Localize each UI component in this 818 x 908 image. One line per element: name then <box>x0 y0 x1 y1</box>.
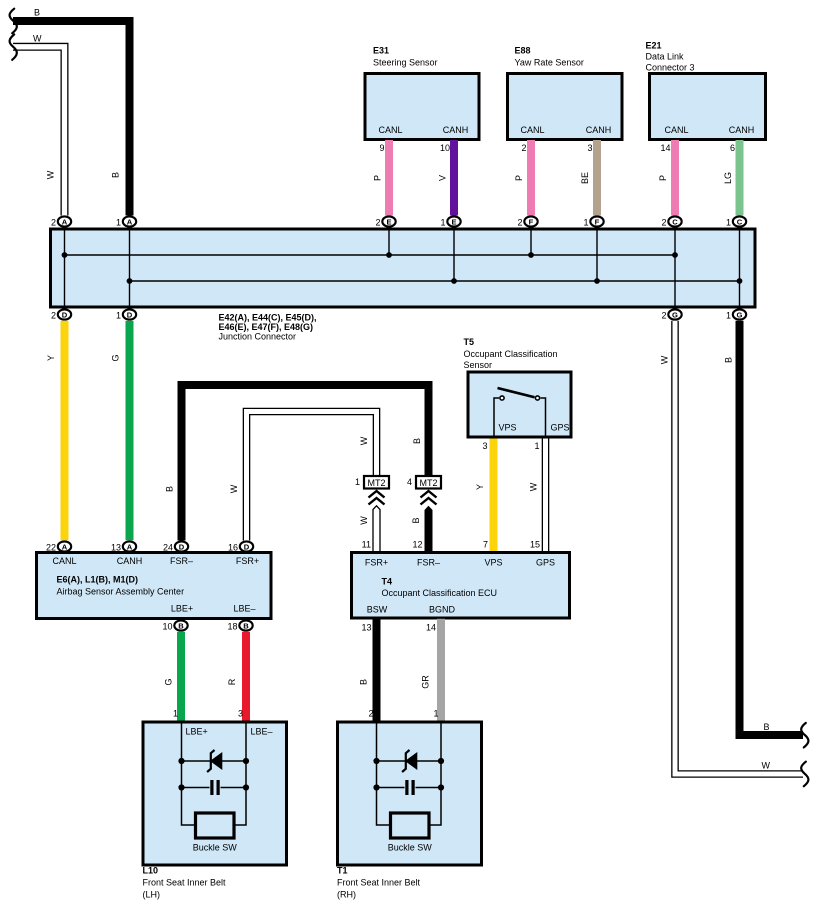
svg-text:LG: LG <box>723 172 733 184</box>
capacitor L10 <box>210 780 219 795</box>
front seat inner belt RH T1 box <box>337 722 482 900</box>
svg-text:Front Seat Inner Belt: Front Seat Inner Belt <box>143 878 227 888</box>
svg-text:1: 1 <box>116 310 121 320</box>
buckle switch T1 <box>388 813 433 853</box>
svg-text:D: D <box>244 542 250 551</box>
svg-text:B: B <box>34 8 40 18</box>
svg-text:FSR+: FSR+ <box>236 556 259 566</box>
svg-text:E: E <box>386 217 391 226</box>
svg-text:(RH): (RH) <box>337 890 356 900</box>
svg-text:W: W <box>46 170 56 179</box>
wire W (T5 GPS pin 1 to T4 pin 15) <box>529 439 546 553</box>
connector 2G <box>661 309 681 320</box>
svg-text:24: 24 <box>163 542 173 552</box>
svg-text:Steering Sensor: Steering Sensor <box>373 58 438 68</box>
svg-text:E6(A), L1(B), M1(D): E6(A), L1(B), M1(D) <box>57 575 139 585</box>
svg-text:D: D <box>127 310 133 319</box>
wire R (airbag LBE- to L10 pin 3) <box>227 632 250 723</box>
svg-text:CANL: CANL <box>378 125 402 135</box>
svg-text:A: A <box>62 217 68 226</box>
svg-text:(LH): (LH) <box>143 890 161 900</box>
wire GR (T4 BGND pin 14 to T1 pin 1) <box>421 619 446 723</box>
svg-text:10: 10 <box>162 621 172 631</box>
svg-text:1: 1 <box>726 310 731 320</box>
wire P (E31 CANL pin 9) <box>373 140 394 216</box>
wire V (E31 CANH pin 10) <box>438 140 459 216</box>
svg-text:B: B <box>724 357 734 363</box>
wire left vertical <box>182 723 196 825</box>
connector 2F <box>517 216 537 227</box>
svg-text:FSR+: FSR+ <box>365 558 388 568</box>
svg-text:P: P <box>658 175 668 181</box>
L10 internal circuit <box>182 723 247 825</box>
svg-text:4: 4 <box>407 477 412 487</box>
connector 2D <box>51 309 71 320</box>
svg-text:Y: Y <box>475 484 485 490</box>
svg-text:2: 2 <box>368 709 373 719</box>
svg-text:E46(E), E47(F), E48(G): E46(E), E47(F), E48(G) <box>219 322 314 332</box>
svg-text:CANH: CANH <box>117 556 143 566</box>
svg-text:16: 16 <box>228 542 238 552</box>
svg-text:1: 1 <box>433 709 438 719</box>
connector 1A <box>116 216 136 227</box>
svg-text:7: 7 <box>483 540 488 550</box>
wire diode row <box>182 760 247 762</box>
wire left vertical <box>377 723 391 825</box>
svg-text:GPS: GPS <box>550 423 569 433</box>
svg-text:1: 1 <box>583 217 588 227</box>
wire P (E88 CANL pin 2) <box>514 140 535 216</box>
MT2 1 chevrons and W wire tip <box>359 491 385 553</box>
MT2 4 chevrons and B wire tip <box>411 491 437 553</box>
svg-text:BSW: BSW <box>367 605 388 615</box>
svg-text:3: 3 <box>482 441 487 451</box>
svg-text:Yaw Rate Sensor: Yaw Rate Sensor <box>515 58 584 68</box>
wire vertical 2F stub <box>530 230 532 255</box>
svg-text:W: W <box>33 34 42 44</box>
wire right vertical <box>429 723 441 825</box>
wire B (airbag FSR- to MT2 4, thick black) <box>165 385 429 541</box>
svg-text:13: 13 <box>361 623 371 633</box>
airbag sensor assembly center box <box>37 553 272 619</box>
wire vertical 1E stub <box>453 230 455 281</box>
svg-text:A: A <box>127 217 133 226</box>
svg-text:W: W <box>359 516 369 525</box>
svg-text:C: C <box>737 217 743 226</box>
wire B top-left (thick black) <box>13 8 130 216</box>
wire vertical 1A-1D <box>129 230 131 307</box>
svg-text:VPS: VPS <box>498 423 516 433</box>
wire B (T4 BSW pin 13 to T1 pin 2, thick black) <box>359 619 381 723</box>
svg-text:2: 2 <box>661 217 666 227</box>
svg-text:1: 1 <box>534 441 539 451</box>
svg-text:22: 22 <box>46 542 56 552</box>
svg-text:B: B <box>411 517 421 523</box>
svg-text:MT2: MT2 <box>420 478 438 488</box>
svg-text:CANL: CANL <box>52 556 76 566</box>
connector 2E <box>375 216 395 227</box>
steering sensor E31 box <box>365 46 479 140</box>
connector 22A <box>46 541 71 552</box>
wire right vertical <box>234 723 246 825</box>
svg-text:BE: BE <box>580 172 590 184</box>
wire LG (E21 CANH pin 6) <box>723 140 744 216</box>
svg-text:G: G <box>164 678 174 685</box>
connector 13A <box>111 541 136 552</box>
buckle switch L10 <box>193 813 238 853</box>
wire W top-left (white outlined) <box>13 34 65 216</box>
junction internal wiring <box>65 230 740 307</box>
wire CANH bus <box>130 280 740 282</box>
connector 1F <box>583 216 603 227</box>
wire break symbol top-left W <box>10 34 17 59</box>
svg-text:13: 13 <box>111 542 121 552</box>
svg-text:A: A <box>62 542 68 551</box>
wire break symbol right B <box>801 723 808 748</box>
wire vertical 1F stub <box>596 230 598 281</box>
svg-text:V: V <box>438 175 448 181</box>
connector 16D <box>228 541 253 552</box>
svg-text:Occupant Classification: Occupant Classification <box>464 349 558 359</box>
svg-text:B: B <box>178 621 184 630</box>
svg-text:Buckle SW: Buckle SW <box>193 843 238 853</box>
svg-text:R: R <box>227 678 237 685</box>
node dots T1 <box>373 758 444 791</box>
svg-text:LBE+: LBE+ <box>171 604 193 614</box>
svg-text:E21: E21 <box>646 41 662 51</box>
svg-text:FSR–: FSR– <box>170 556 193 566</box>
svg-text:9: 9 <box>379 143 384 153</box>
svg-text:CANH: CANH <box>443 125 469 135</box>
wire vertical 2A-2D <box>64 230 66 307</box>
wire capacitor row right <box>416 787 442 789</box>
svg-text:VPS: VPS <box>484 558 502 568</box>
svg-text:E: E <box>451 217 456 226</box>
connector 1E <box>440 216 460 227</box>
svg-text:15: 15 <box>530 540 540 550</box>
svg-text:12: 12 <box>412 540 422 550</box>
wire vertical 2C-2G <box>674 230 676 307</box>
wire diode row <box>377 760 442 762</box>
svg-text:Connector 3: Connector 3 <box>646 63 695 73</box>
svg-text:P: P <box>514 175 524 181</box>
connector MT2 (4, on B wire) <box>407 476 441 489</box>
svg-text:A: A <box>127 542 133 551</box>
svg-text:W: W <box>359 436 369 445</box>
svg-text:F: F <box>529 217 534 226</box>
svg-text:1: 1 <box>440 217 445 227</box>
svg-text:11: 11 <box>362 540 371 550</box>
junction connector box E42/E44/E45/E46/E47/E48 <box>51 229 756 342</box>
svg-text:1: 1 <box>116 217 121 227</box>
svg-text:W: W <box>529 482 539 491</box>
front seat inner belt LH L10 box <box>143 722 287 900</box>
wire P (E21 CANL pin 14) <box>658 140 679 216</box>
svg-text:LBE–: LBE– <box>251 727 273 737</box>
svg-text:GR: GR <box>421 675 431 689</box>
wire W (airbag FSR+ to MT2 1, white outlined) <box>229 412 377 541</box>
svg-text:T1: T1 <box>337 866 348 876</box>
svg-text:3: 3 <box>238 709 243 719</box>
svg-text:E88: E88 <box>515 46 531 56</box>
wire vertical 2E stub <box>388 230 390 255</box>
svg-text:B: B <box>412 438 422 444</box>
switch inside T5 <box>494 388 546 436</box>
svg-text:CANL: CANL <box>520 125 544 135</box>
connector 1C <box>726 216 746 227</box>
svg-text:P: P <box>373 175 383 181</box>
svg-text:Buckle SW: Buckle SW <box>388 843 433 853</box>
connector MT2 (1, on W wire) <box>355 476 389 489</box>
wire Y (2D to airbag CANL) <box>46 321 69 541</box>
svg-text:C: C <box>672 217 678 226</box>
svg-text:1: 1 <box>173 709 178 719</box>
wire CANL bus <box>65 254 676 256</box>
connector 1G <box>726 309 746 320</box>
wire G (airbag LBE+ to L10 pin 1) <box>164 632 186 723</box>
junction node dots <box>62 252 743 284</box>
svg-text:W: W <box>229 484 239 493</box>
svg-text:G: G <box>737 310 743 319</box>
svg-text:D: D <box>62 310 68 319</box>
capacitor T1 <box>405 780 414 795</box>
svg-text:Airbag Sensor Assembly Center: Airbag Sensor Assembly Center <box>57 587 185 597</box>
wire Y (T5 VPS pin 3 to T4 pin 7) <box>475 439 498 553</box>
wire B (1G to right edge, thick black) <box>724 321 804 735</box>
connector 1D <box>116 309 136 320</box>
svg-text:14: 14 <box>426 623 436 633</box>
wire break symbol right W <box>801 762 808 787</box>
svg-text:T5: T5 <box>464 337 475 347</box>
diode L10 (zener) <box>207 750 222 772</box>
svg-text:W: W <box>762 761 771 771</box>
wire break symbol top-left B <box>10 9 17 34</box>
connector 2C <box>661 216 681 227</box>
svg-text:BGND: BGND <box>429 605 456 615</box>
svg-text:6: 6 <box>730 143 735 153</box>
svg-text:2: 2 <box>375 217 380 227</box>
svg-text:GPS: GPS <box>536 558 555 568</box>
svg-text:10: 10 <box>440 143 450 153</box>
T1 internal circuit <box>377 723 442 825</box>
data link connector 3 E21 box <box>646 41 766 140</box>
svg-text:D: D <box>179 542 185 551</box>
svg-text:2: 2 <box>517 217 522 227</box>
svg-text:F: F <box>595 217 600 226</box>
svg-text:1: 1 <box>726 217 731 227</box>
wire W (2G to right edge, white outlined) <box>660 321 804 774</box>
svg-text:G: G <box>111 354 121 361</box>
svg-text:LBE+: LBE+ <box>186 727 208 737</box>
yaw rate sensor E88 box <box>508 46 623 140</box>
svg-text:E31: E31 <box>373 46 389 56</box>
wire capacitor row left <box>377 787 405 789</box>
svg-text:2: 2 <box>521 143 526 153</box>
wire BE (E88 CANH pin 3) <box>580 140 601 216</box>
connector 18B <box>227 620 252 631</box>
node dots L10 <box>178 758 249 791</box>
connector 2A <box>51 216 71 227</box>
connector 24D <box>163 541 188 552</box>
wire capacitor row left <box>182 787 210 789</box>
wire G (1D to airbag CANH) <box>111 321 134 541</box>
svg-text:2: 2 <box>51 310 56 320</box>
svg-text:CANH: CANH <box>729 125 755 135</box>
svg-text:18: 18 <box>227 621 237 631</box>
svg-text:Front Seat Inner Belt: Front Seat Inner Belt <box>337 878 421 888</box>
wire capacitor row right <box>221 787 247 789</box>
svg-text:2: 2 <box>661 310 666 320</box>
svg-text:B: B <box>165 486 175 492</box>
svg-text:3: 3 <box>587 143 592 153</box>
wire vertical 1C-1G <box>739 230 741 307</box>
svg-text:T4: T4 <box>382 577 393 587</box>
svg-text:L10: L10 <box>143 866 159 876</box>
svg-text:Occupant Classification ECU: Occupant Classification ECU <box>382 588 498 598</box>
svg-text:B: B <box>111 172 121 178</box>
svg-text:B: B <box>243 621 249 630</box>
connector 10B <box>162 620 187 631</box>
svg-text:LBE–: LBE– <box>233 604 255 614</box>
svg-text:2: 2 <box>51 217 56 227</box>
svg-text:Sensor: Sensor <box>464 360 493 370</box>
svg-text:W: W <box>660 355 670 364</box>
svg-text:MT2: MT2 <box>368 478 386 488</box>
occupant classification ECU T4 box <box>352 553 570 619</box>
svg-text:FSR–: FSR– <box>417 558 440 568</box>
svg-text:B: B <box>359 679 369 685</box>
svg-text:Data Link: Data Link <box>646 52 685 62</box>
svg-text:1: 1 <box>355 477 360 487</box>
svg-text:E42(A), E44(C), E45(D),: E42(A), E44(C), E45(D), <box>219 313 317 323</box>
svg-text:G: G <box>672 310 678 319</box>
diode T1 (zener) <box>402 750 417 772</box>
svg-text:B: B <box>764 722 770 732</box>
svg-text:CANH: CANH <box>586 125 612 135</box>
occupant classification sensor T5 box <box>464 337 572 437</box>
svg-text:14: 14 <box>660 143 670 153</box>
svg-text:Y: Y <box>46 355 56 361</box>
svg-text:CANL: CANL <box>664 125 688 135</box>
svg-text:Junction Connector: Junction Connector <box>219 332 297 342</box>
